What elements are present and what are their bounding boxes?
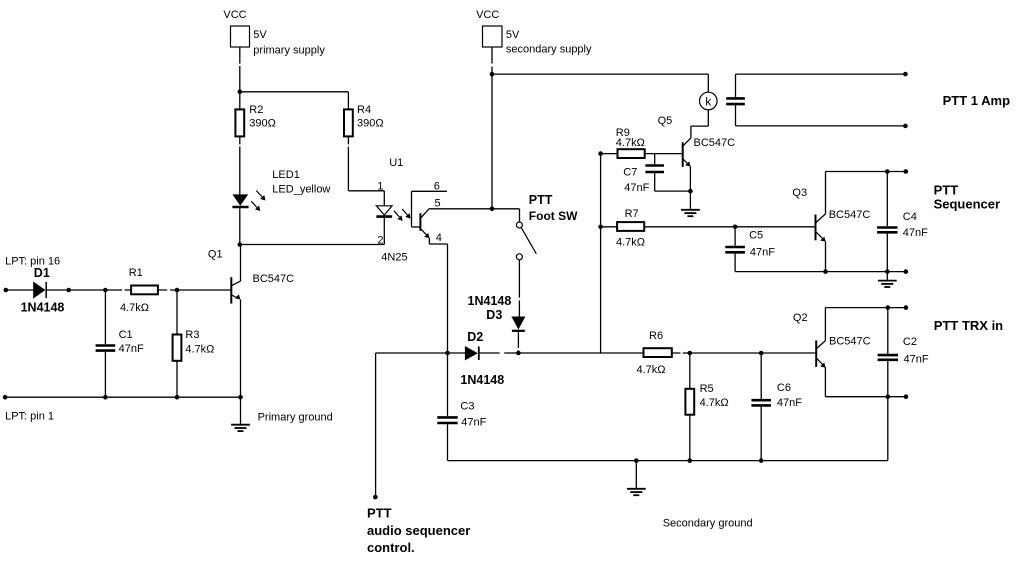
svg-text:C1: C1 xyxy=(119,329,133,341)
svg-text:C5: C5 xyxy=(749,230,763,242)
svg-text:LED_yellow: LED_yellow xyxy=(272,184,330,196)
svg-text:2: 2 xyxy=(377,235,383,247)
svg-text:BC547C: BC547C xyxy=(253,273,295,285)
svg-text:390Ω: 390Ω xyxy=(249,118,276,130)
svg-text:C2: C2 xyxy=(903,336,917,348)
svg-text:5: 5 xyxy=(435,197,441,209)
svg-text:D3: D3 xyxy=(486,308,502,322)
svg-text:4.7kΩ: 4.7kΩ xyxy=(616,137,645,149)
svg-text:D1: D1 xyxy=(34,266,50,280)
svg-text:Q1: Q1 xyxy=(208,249,223,261)
svg-text:4.7kΩ: 4.7kΩ xyxy=(185,343,214,355)
svg-text:Q2: Q2 xyxy=(793,312,808,324)
svg-text:VCC: VCC xyxy=(476,9,499,21)
svg-text:PTT TRX in: PTT TRX in xyxy=(934,318,1003,333)
svg-text:4.7kΩ: 4.7kΩ xyxy=(616,236,645,248)
svg-text:4.7kΩ: 4.7kΩ xyxy=(120,302,149,314)
svg-text:Q3: Q3 xyxy=(792,187,807,199)
svg-text:47nF: 47nF xyxy=(119,343,144,355)
svg-text:R4: R4 xyxy=(357,104,371,116)
svg-text:LED1: LED1 xyxy=(272,169,300,181)
svg-text:BC547C: BC547C xyxy=(694,137,736,149)
svg-text:47nF: 47nF xyxy=(903,227,928,239)
svg-text:Foot SW: Foot SW xyxy=(529,209,578,223)
svg-text:LPT: pin 1: LPT: pin 1 xyxy=(5,411,54,423)
svg-text:1N4148: 1N4148 xyxy=(21,301,65,315)
svg-text:U1: U1 xyxy=(389,157,403,169)
svg-text:1N4148: 1N4148 xyxy=(468,294,512,308)
svg-text:secondary supply: secondary supply xyxy=(506,43,592,55)
svg-text:R6: R6 xyxy=(649,330,663,342)
svg-text:Sequencer: Sequencer xyxy=(934,197,1000,212)
svg-text:R2: R2 xyxy=(249,104,263,116)
svg-text:R1: R1 xyxy=(129,267,143,279)
svg-text:k: k xyxy=(705,94,712,108)
svg-text:1N4148: 1N4148 xyxy=(460,373,504,387)
svg-text:audio sequencer: audio sequencer xyxy=(367,523,470,538)
svg-text:R5: R5 xyxy=(700,383,714,395)
svg-text:primary supply: primary supply xyxy=(253,44,325,56)
svg-text:Q5: Q5 xyxy=(658,115,673,127)
svg-text:R3: R3 xyxy=(185,329,199,341)
svg-text:LPT: pin 16: LPT: pin 16 xyxy=(5,256,60,268)
svg-text:PTT 1 Amp: PTT 1 Amp xyxy=(943,93,1010,108)
svg-text:4N25: 4N25 xyxy=(381,251,407,263)
svg-text:47nF: 47nF xyxy=(624,182,649,194)
svg-text:PTT: PTT xyxy=(367,506,392,521)
svg-text:C3: C3 xyxy=(460,401,474,413)
svg-text:PTT: PTT xyxy=(934,182,959,197)
svg-text:VCC: VCC xyxy=(223,9,246,21)
svg-text:C6: C6 xyxy=(777,382,791,394)
svg-text:6: 6 xyxy=(434,180,440,192)
svg-text:47nF: 47nF xyxy=(904,354,929,366)
svg-text:4: 4 xyxy=(436,232,442,244)
svg-text:4.7kΩ: 4.7kΩ xyxy=(700,397,729,409)
svg-text:Secondary ground: Secondary ground xyxy=(663,517,753,529)
svg-text:390Ω: 390Ω xyxy=(357,118,384,130)
svg-text:47nF: 47nF xyxy=(461,416,486,428)
svg-text:1: 1 xyxy=(377,180,383,192)
svg-text:BC547C: BC547C xyxy=(829,336,871,348)
svg-text:C4: C4 xyxy=(903,211,917,223)
svg-text:Primary ground: Primary ground xyxy=(258,412,333,424)
svg-text:5V: 5V xyxy=(506,29,520,41)
svg-text:PTT: PTT xyxy=(529,193,553,207)
svg-text:5V: 5V xyxy=(253,29,267,41)
svg-text:C7: C7 xyxy=(623,166,637,178)
svg-text:4.7kΩ: 4.7kΩ xyxy=(637,364,666,376)
svg-text:47nF: 47nF xyxy=(777,397,802,409)
svg-text:BC547C: BC547C xyxy=(829,209,871,221)
svg-text:control.: control. xyxy=(367,540,415,555)
svg-text:47nF: 47nF xyxy=(750,247,775,259)
svg-text:D2: D2 xyxy=(467,330,483,344)
svg-text:R7: R7 xyxy=(625,208,639,220)
